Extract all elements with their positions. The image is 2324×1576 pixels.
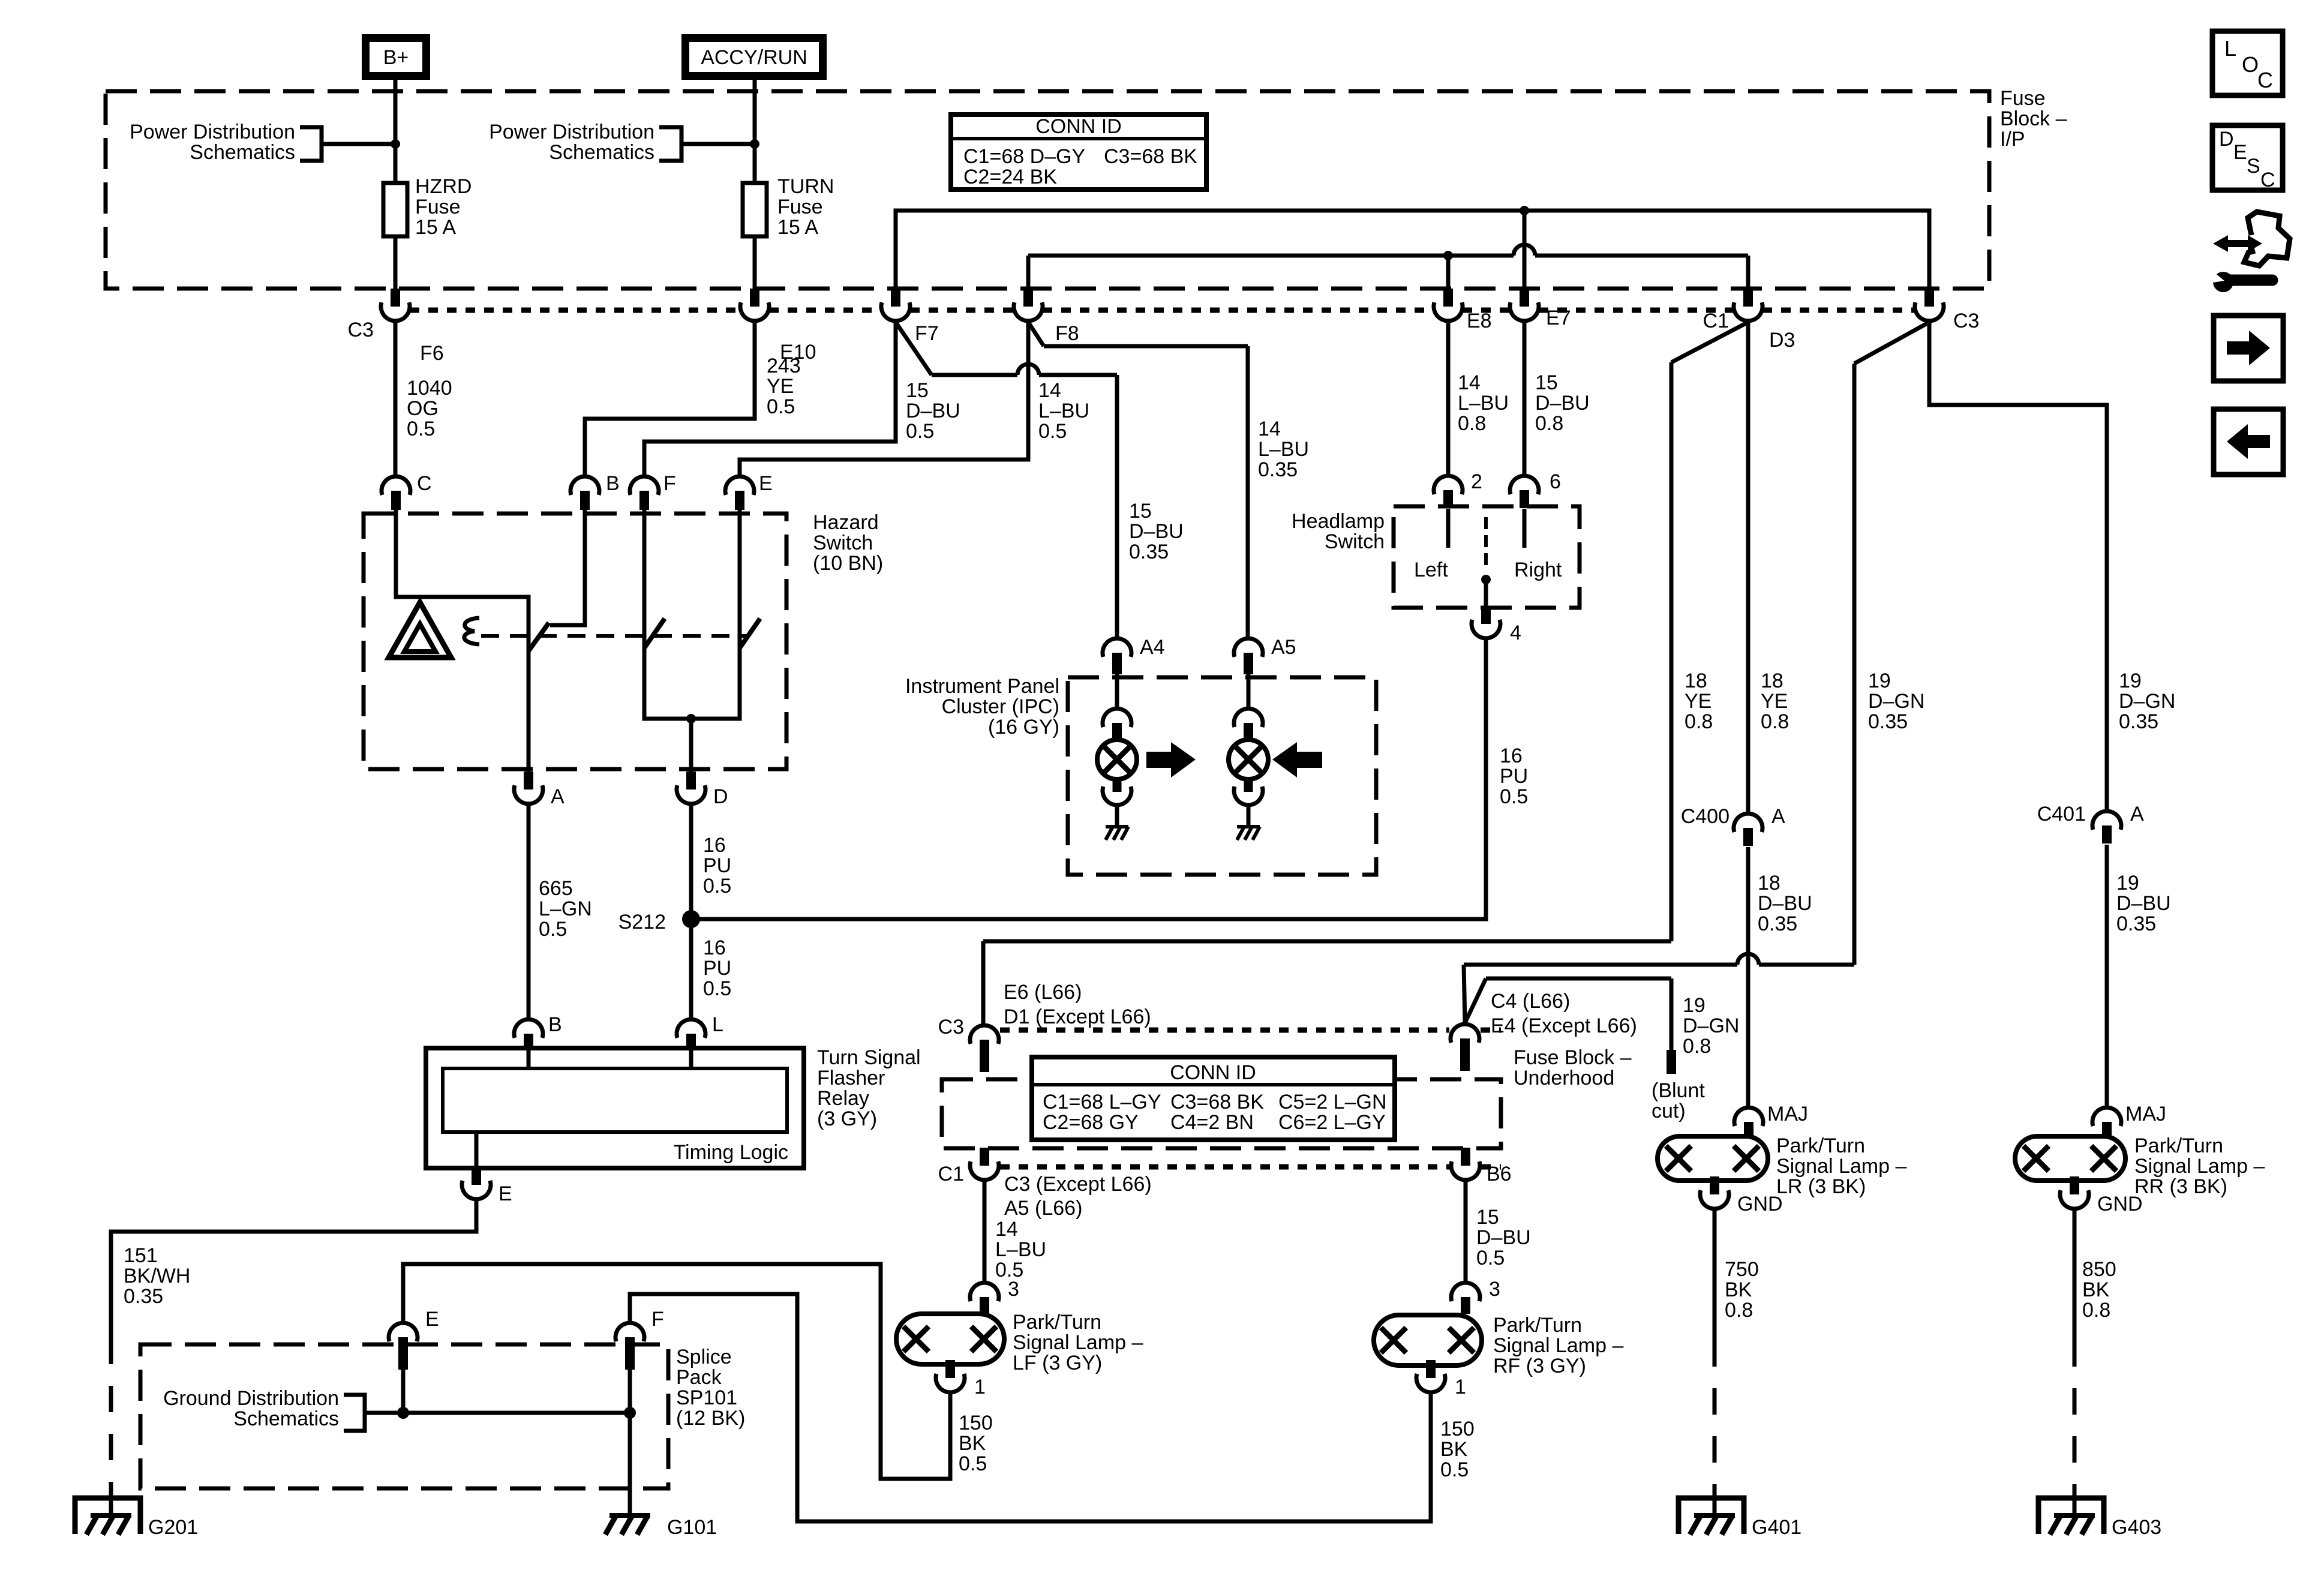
svg-text:CONN ID: CONN ID — [1035, 115, 1122, 138]
svg-text:C2=68 GY: C2=68 GY — [1043, 1111, 1139, 1134]
svg-text:C3: C3 — [348, 319, 374, 341]
svg-text:L–GN: L–GN — [539, 897, 592, 920]
connector underhood C3 pin E6/D1 — [970, 1025, 999, 1044]
svg-text:Fuse Block –: Fuse Block – — [1514, 1046, 1632, 1069]
svg-text:0.35: 0.35 — [1758, 912, 1797, 935]
svg-text:0.8: 0.8 — [1761, 710, 1789, 733]
wire splice bus — [365, 1411, 630, 1415]
svg-text:19: 19 — [1683, 994, 1706, 1017]
svg-text:E7: E7 — [1546, 307, 1571, 329]
svg-text:0.35: 0.35 — [124, 1285, 163, 1308]
svg-text:Park/Turn: Park/Turn — [1013, 1311, 1101, 1334]
hazard switch blade (left, closed) — [529, 623, 549, 651]
svg-text:Right: Right — [1514, 559, 1562, 581]
svg-text:14: 14 — [1038, 379, 1061, 402]
svg-text:Fuse: Fuse — [2000, 87, 2046, 110]
wire 665 L-GN hazard A to relay B — [527, 805, 531, 1018]
svg-text:D–GN: D–GN — [2119, 690, 2175, 713]
svg-text:Switch: Switch — [813, 532, 873, 554]
IPC left-turn arrow icon — [1296, 752, 1322, 768]
connector underhood C1 pin C3/A5 — [970, 1161, 999, 1180]
svg-text:L–BU: L–BU — [1038, 400, 1089, 422]
svg-text:C3=68 BK: C3=68 BK — [1104, 145, 1197, 168]
svg-text:15: 15 — [1535, 371, 1558, 394]
wire 19 D-GN C3 to C401 — [1929, 322, 2107, 810]
svg-text:15: 15 — [906, 379, 929, 402]
svg-text:GND: GND — [2097, 1193, 2143, 1215]
svg-text:(Blunt: (Blunt — [1652, 1079, 1705, 1102]
svg-text:C1: C1 — [1703, 310, 1729, 332]
svg-text:G201: G201 — [148, 1516, 198, 1539]
junction splice F — [624, 1407, 636, 1419]
svg-text:16: 16 — [1500, 745, 1523, 767]
relay timing logic box — [443, 1068, 787, 1132]
hazard switch dashed box — [364, 514, 786, 769]
svg-text:G403: G403 — [2112, 1516, 2161, 1539]
svg-text:A: A — [2130, 803, 2144, 825]
blunt cut end — [1667, 1050, 1676, 1074]
svg-text:Splice: Splice — [676, 1346, 732, 1368]
svg-text:0.35: 0.35 — [1868, 710, 1908, 733]
connector C1 pin D3 — [1734, 302, 1762, 321]
headlamp actuator dashed — [1484, 517, 1488, 569]
svg-text:15: 15 — [1476, 1206, 1499, 1229]
svg-text:S: S — [2247, 155, 2260, 178]
svg-text:Power Distribution: Power Distribution — [130, 121, 295, 143]
svg-text:GND: GND — [1737, 1193, 1783, 1215]
junction headlamp actuator — [1481, 575, 1491, 584]
wire 14 L-BU to LF lamp — [983, 1181, 987, 1281]
svg-text:16: 16 — [703, 834, 726, 857]
wire IPC pin to lamp right (turn RH) — [1247, 673, 1251, 707]
ground G401 — [1679, 1498, 1744, 1534]
wire 151 BK/WH relay E to G201 — [111, 1200, 476, 1338]
icon box left arrow — [2214, 409, 2283, 475]
IPC internal ground left (turn LH) — [1106, 825, 1128, 828]
wire headlamp 6 internal — [1523, 509, 1527, 548]
svg-text:PU: PU — [703, 957, 731, 980]
svg-text:0.5: 0.5 — [906, 420, 934, 443]
svg-text:Switch: Switch — [1325, 530, 1385, 553]
park/turn signal lamp RR — [2015, 1136, 2125, 1181]
svg-text:0.5: 0.5 — [1476, 1247, 1505, 1269]
svg-text:C: C — [417, 472, 432, 495]
svg-text:18: 18 — [1685, 670, 1707, 692]
svg-text:19: 19 — [2116, 872, 2139, 894]
svg-text:BK: BK — [959, 1432, 986, 1455]
wire relay E internal — [475, 1132, 479, 1168]
wire B+ to HZRD fuse — [394, 80, 398, 184]
wire 14 L-BU F8 to hazard E — [740, 322, 1028, 475]
svg-text:BK: BK — [1440, 1438, 1468, 1461]
svg-text:1040: 1040 — [407, 377, 452, 400]
svg-text:151: 151 — [124, 1244, 158, 1267]
svg-text:Relay: Relay — [817, 1087, 869, 1110]
svg-text:TURN: TURN — [777, 175, 834, 198]
wire hazard C internal — [396, 509, 529, 651]
svg-text:Signal Lamp –: Signal Lamp – — [1493, 1334, 1623, 1357]
svg-text:D–BU: D–BU — [1758, 892, 1812, 915]
svg-text:665: 665 — [539, 877, 573, 900]
wire 18 D-BU C400 to LR MAJ — [1746, 847, 1750, 1106]
svg-text:3: 3 — [1008, 1278, 1019, 1301]
svg-text:0.5: 0.5 — [1038, 420, 1067, 443]
svg-text:C3=68 BK: C3=68 BK — [1170, 1091, 1264, 1113]
svg-text:S212: S212 — [618, 911, 666, 933]
svg-text:1: 1 — [974, 1376, 986, 1398]
svg-text:Block –: Block – — [2000, 107, 2067, 130]
connector hazard pin B — [571, 476, 599, 495]
IPC lamp connector bottom right (turn RH) — [1244, 778, 1253, 792]
junction bus to E7 — [1520, 206, 1529, 215]
hazard symbol triangle — [389, 602, 451, 658]
connector relay pin E — [462, 1181, 491, 1199]
svg-text:Ground Distribution: Ground Distribution — [163, 1387, 339, 1410]
svg-text:Cluster (IPC): Cluster (IPC) — [942, 695, 1059, 718]
wire E4 branch to blunt cut — [1465, 978, 1486, 1023]
junction on B+ feed — [391, 139, 400, 149]
svg-text:(16 GY): (16 GY) — [988, 716, 1059, 739]
svg-text:C2=24 BK: C2=24 BK — [963, 166, 1057, 188]
svg-text:Power Distribution: Power Distribution — [489, 121, 654, 143]
svg-text:Signal Lamp –: Signal Lamp – — [1013, 1331, 1143, 1354]
wire 15 D-BU E7 to headlamp 6 — [1523, 322, 1527, 475]
svg-text:C3: C3 — [1953, 310, 1979, 332]
icon wrench and arrows — [2213, 235, 2262, 252]
wire splice E drop — [401, 1368, 406, 1413]
wire 19 D-GN C3 diagonal to underhood E4 — [1854, 322, 1929, 364]
splice pack dashed box — [140, 1344, 668, 1488]
svg-text:B6: B6 — [1487, 1163, 1512, 1185]
junction on ACCY feed — [750, 139, 759, 149]
svg-text:E: E — [759, 472, 773, 495]
connector C1 pin E8 — [1434, 302, 1463, 321]
svg-text:19: 19 — [1868, 670, 1891, 692]
power feed box B+ — [366, 38, 427, 76]
svg-text:BK/WH: BK/WH — [124, 1265, 190, 1287]
svg-text:O: O — [2242, 52, 2259, 77]
svg-text:0.5: 0.5 — [1500, 785, 1528, 808]
hazard switch spring — [464, 618, 479, 644]
bracket to power distribution (left) — [300, 127, 322, 161]
svg-text:Pack: Pack — [676, 1366, 722, 1389]
svg-text:14: 14 — [995, 1218, 1018, 1241]
connector C401 pin A — [2092, 811, 2121, 830]
connector hazard pin E — [725, 476, 754, 495]
wire 18 YE D3 diagonal to underhood C3 — [1671, 322, 1748, 362]
svg-text:F6: F6 — [420, 342, 444, 365]
wire 150 BK RF to splice F — [630, 1294, 1431, 1521]
svg-text:0.8: 0.8 — [2082, 1299, 2110, 1322]
svg-text:L–BU: L–BU — [1458, 392, 1509, 415]
svg-text:L–BU: L–BU — [995, 1238, 1046, 1261]
svg-text:0.5: 0.5 — [539, 918, 567, 941]
svg-text:Turn Signal: Turn Signal — [817, 1046, 921, 1069]
connector hazard pin D — [677, 785, 705, 804]
icon box LOC — [2212, 31, 2283, 95]
svg-text:Park/Turn: Park/Turn — [2134, 1134, 2223, 1157]
svg-text:C3: C3 — [938, 1016, 964, 1038]
svg-text:0.5: 0.5 — [703, 977, 731, 1000]
svg-text:C: C — [2260, 169, 2275, 191]
svg-text:G101: G101 — [667, 1516, 717, 1539]
connector underhood C4/E4 — [1451, 1024, 1479, 1043]
wire 850 BK RR to G403 — [2073, 1210, 2077, 1340]
wire actuator to pin 4 — [1484, 580, 1488, 606]
svg-text:0.5: 0.5 — [407, 418, 435, 440]
junction splice E — [397, 1407, 409, 1419]
connector underhood pin B6 — [1451, 1161, 1480, 1180]
svg-text:PU: PU — [1500, 765, 1528, 788]
svg-text:Timing Logic: Timing Logic — [674, 1141, 788, 1164]
splice S212 — [682, 910, 700, 928]
wire relay B internal — [527, 1048, 531, 1068]
svg-text:ACCY/RUN: ACCY/RUN — [701, 46, 807, 69]
svg-text:Flasher: Flasher — [817, 1067, 885, 1089]
svg-text:D1 (Except L66): D1 (Except L66) — [1004, 1005, 1151, 1028]
wire 16 PU hazard D to relay L — [689, 805, 693, 1018]
svg-text:3: 3 — [1489, 1278, 1500, 1301]
connector IPC pin A4 — [1103, 638, 1131, 657]
svg-text:C1=68 D–GY: C1=68 D–GY — [963, 145, 1085, 168]
svg-text:C1=68 L–GY: C1=68 L–GY — [1043, 1091, 1161, 1113]
svg-text:A4: A4 — [1140, 636, 1165, 659]
svg-text:D: D — [2219, 128, 2234, 151]
svg-text:C5=2 L–GN: C5=2 L–GN — [1278, 1091, 1387, 1113]
svg-text:D–BU: D–BU — [1535, 392, 1590, 415]
svg-text:E: E — [425, 1308, 439, 1331]
svg-text:C4=2 BN: C4=2 BN — [1170, 1111, 1254, 1134]
svg-text:HZRD: HZRD — [415, 175, 472, 198]
svg-text:Underhood: Underhood — [1514, 1067, 1614, 1089]
wire hazard output U-link — [644, 648, 740, 719]
svg-text:0.8: 0.8 — [1458, 412, 1486, 435]
park/turn signal lamp RF — [1374, 1315, 1482, 1365]
power feed box ACCY/RUN — [686, 38, 823, 76]
IPC lamp connector top right (turn RH) — [1234, 709, 1263, 727]
svg-text:E4 (Except L66): E4 (Except L66) — [1491, 1014, 1637, 1037]
svg-text:CONN ID: CONN ID — [1170, 1061, 1256, 1084]
connector LF lamp pin 1 — [936, 1374, 965, 1392]
connector C1 pin E7 — [1510, 302, 1539, 321]
connector RF lamp pin 3 — [1451, 1283, 1480, 1301]
connector hazard pin F — [630, 476, 659, 495]
svg-text:(3 GY): (3 GY) — [817, 1107, 877, 1130]
svg-text:F8: F8 — [1055, 322, 1079, 345]
svg-text:14: 14 — [1458, 371, 1481, 394]
svg-text:MAJ: MAJ — [2125, 1103, 2166, 1125]
svg-text:A: A — [1771, 805, 1785, 828]
svg-text:LF (3 GY): LF (3 GY) — [1013, 1352, 1102, 1374]
connector headlamp pin 6 — [1510, 476, 1539, 494]
IPC right-turn arrow icon — [1146, 752, 1173, 768]
svg-text:L: L — [2224, 36, 2236, 61]
wire HZRD fuse to F6 — [394, 236, 398, 290]
IPC lamp connector bottom left (turn LH) — [1113, 778, 1122, 792]
connector C3 pin E10 — [740, 302, 769, 321]
wire bracket to B+ node — [322, 142, 395, 146]
wire 750 BK LR to G401 — [1713, 1210, 1717, 1340]
svg-text:YE: YE — [767, 375, 794, 398]
ground G101 — [609, 1513, 650, 1518]
wire IPC pin to lamp left (turn LH) — [1115, 673, 1119, 707]
svg-text:Schematics: Schematics — [233, 1407, 339, 1430]
svg-text:15 A: 15 A — [415, 216, 456, 239]
svg-text:0.5: 0.5 — [703, 875, 731, 897]
wire 243 YE E10 to hazard B — [585, 322, 755, 475]
svg-text:14: 14 — [1258, 418, 1281, 440]
wire 16 PU headlamp 4 to S212 — [698, 640, 1486, 919]
svg-text:0.35: 0.35 — [1129, 541, 1169, 563]
svg-text:B+: B+ — [383, 46, 409, 69]
internal bus F8 to E8/C1 — [1026, 256, 1031, 289]
svg-text:D–GN: D–GN — [1683, 1014, 1739, 1037]
wire 14 L-BU E8 to headlamp 2 — [1446, 322, 1451, 475]
connector LR lamp GND — [1700, 1190, 1729, 1209]
wire splice F drop — [628, 1368, 632, 1413]
svg-text:C400: C400 — [1681, 805, 1730, 828]
svg-text:A5: A5 — [1271, 636, 1296, 659]
svg-text:E8: E8 — [1467, 310, 1492, 332]
CONN ID table (I/P) — [951, 115, 1206, 190]
hazard switch blade (middle, open) — [644, 619, 665, 648]
wire hazard A internal — [527, 651, 531, 772]
fuse block I/P dashed enclosure — [106, 91, 1989, 289]
svg-text:850: 850 — [2082, 1258, 2116, 1281]
svg-text:E: E — [2233, 141, 2247, 164]
svg-text:B: B — [548, 1013, 562, 1036]
headlamp switch dashed box — [1394, 506, 1580, 608]
svg-text:Signal Lamp –: Signal Lamp – — [2134, 1155, 2265, 1178]
connector row dotted (underhood top) — [1000, 1028, 1449, 1033]
hazard switch linkage dashed — [481, 634, 749, 638]
svg-text:1: 1 — [1455, 1376, 1466, 1398]
svg-text:15: 15 — [1129, 500, 1152, 523]
svg-text:0.5: 0.5 — [1440, 1458, 1469, 1481]
svg-text:150: 150 — [959, 1412, 993, 1434]
svg-text:Left: Left — [1414, 559, 1448, 581]
svg-text:D–GN: D–GN — [1868, 690, 1924, 713]
connector headlamp pin 2 — [1434, 476, 1463, 494]
wire bus drop to E8 — [1446, 256, 1451, 289]
svg-text:(12 BK): (12 BK) — [676, 1407, 745, 1430]
connector row dotted (underhood bottom) — [1000, 1164, 1450, 1170]
wire TURN fuse to E10 — [753, 236, 757, 290]
svg-text:Signal Lamp –: Signal Lamp – — [1776, 1155, 1906, 1178]
svg-text:BK: BK — [1725, 1278, 1752, 1301]
svg-text:F: F — [663, 472, 676, 495]
connector C3 pin F7 — [881, 302, 910, 321]
svg-text:D–BU: D–BU — [1129, 520, 1184, 543]
wire IPC lamp to ground left (turn LH) — [1115, 806, 1119, 827]
wire ACCY/RUN to TURN fuse — [753, 80, 757, 184]
svg-text:E6 (L66): E6 (L66) — [1004, 981, 1082, 1004]
svg-text:A: A — [551, 785, 565, 808]
svg-text:YE: YE — [1761, 690, 1788, 713]
wire bus drop to E7 — [1523, 211, 1527, 289]
IPC indicator lamp right (turn RH) — [1229, 740, 1268, 779]
CONN ID table (underhood) — [1032, 1057, 1395, 1140]
svg-text:2: 2 — [1471, 470, 1482, 493]
connector LF lamp pin 3 — [970, 1283, 999, 1301]
svg-text:(10 BN): (10 BN) — [813, 552, 883, 575]
wire relay L internal — [689, 1048, 693, 1068]
connector RF lamp pin 1 — [1416, 1374, 1445, 1392]
bracket to power distribution (right) — [659, 127, 681, 161]
svg-text:0.35: 0.35 — [1258, 458, 1298, 481]
instrument panel cluster dashed box — [1068, 677, 1376, 875]
wire 1040 OG F6 to hazard C — [394, 322, 398, 475]
wire bracket to ACCY node — [681, 142, 755, 146]
internal bus F7 to E7/C3 — [896, 211, 1929, 289]
connector relay pin L — [677, 1019, 705, 1038]
ground G201 — [75, 1498, 140, 1534]
svg-text:OG: OG — [407, 397, 439, 420]
svg-text:18: 18 — [1761, 670, 1783, 692]
connector LR lamp MAJ — [1734, 1107, 1763, 1126]
svg-text:C3 (Except L66): C3 (Except L66) — [1004, 1173, 1152, 1196]
svg-text:Headlamp: Headlamp — [1292, 510, 1385, 533]
svg-text:18: 18 — [1758, 872, 1780, 894]
wire hazard E internal — [738, 509, 742, 648]
turn signal flasher relay box — [426, 1048, 804, 1168]
svg-text:Schematics: Schematics — [190, 141, 295, 164]
IPC internal ground right (turn RH) — [1237, 825, 1260, 828]
svg-text:6: 6 — [1550, 470, 1561, 493]
IPC lamp connector top left (turn LH) — [1103, 709, 1131, 727]
svg-text:L: L — [712, 1013, 723, 1036]
connector RR lamp GND — [2060, 1190, 2089, 1209]
svg-text:E: E — [499, 1182, 512, 1205]
svg-text:0.35: 0.35 — [2116, 912, 2156, 935]
svg-text:MAJ: MAJ — [1767, 1103, 1808, 1125]
svg-text:A5 (L66): A5 (L66) — [1004, 1197, 1082, 1220]
wire hazard F internal — [642, 509, 647, 648]
svg-text:L–BU: L–BU — [1258, 438, 1309, 461]
wire headlamp 2 internal — [1446, 509, 1451, 548]
ground G403 — [2038, 1498, 2104, 1534]
svg-text:16: 16 — [703, 936, 726, 959]
svg-text:SP101: SP101 — [676, 1386, 737, 1409]
svg-text:C6=2 L–GY: C6=2 L–GY — [1278, 1111, 1386, 1134]
connector IPC pin A5 — [1234, 638, 1263, 657]
wire splice F to G101 — [628, 1413, 632, 1515]
svg-text:I/P: I/P — [2000, 128, 2025, 151]
svg-text:243: 243 — [767, 355, 801, 377]
svg-text:C1: C1 — [938, 1163, 964, 1185]
bracket ground distribution — [344, 1395, 365, 1431]
svg-text:D: D — [713, 785, 728, 808]
svg-text:D–BU: D–BU — [906, 400, 960, 422]
svg-text:cut): cut) — [1652, 1100, 1686, 1122]
junction bus to E8 — [1443, 251, 1453, 260]
svg-text:0.8: 0.8 — [1685, 710, 1713, 733]
wire F7 branch to IPC A4 — [896, 322, 932, 375]
svg-text:Fuse: Fuse — [777, 196, 823, 218]
wire 15 D-BU F7 to hazard F — [644, 322, 896, 475]
svg-text:Park/Turn: Park/Turn — [1776, 1134, 1865, 1157]
svg-text:750: 750 — [1725, 1258, 1759, 1281]
fuse block underhood dashed box — [942, 1079, 1501, 1148]
fuse TURN Fuse 15 A — [743, 183, 767, 236]
svg-text:Fuse: Fuse — [415, 196, 461, 218]
connector splice pack pin E — [389, 1323, 418, 1341]
svg-text:Hazard: Hazard — [813, 511, 879, 534]
svg-text:D3: D3 — [1769, 329, 1795, 352]
svg-text:150: 150 — [1440, 1418, 1475, 1440]
svg-text:YE: YE — [1685, 690, 1712, 713]
svg-text:0.8: 0.8 — [1535, 412, 1563, 435]
